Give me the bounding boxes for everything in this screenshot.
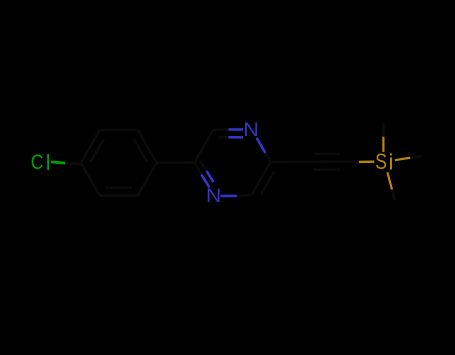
svg-text:S: S (375, 150, 387, 175)
svg-text:i: i (388, 149, 393, 174)
svg-text:l: l (46, 150, 51, 175)
svg-text:C: C (31, 151, 44, 175)
svg-text:N: N (243, 119, 259, 141)
svg-text:N: N (206, 184, 221, 206)
